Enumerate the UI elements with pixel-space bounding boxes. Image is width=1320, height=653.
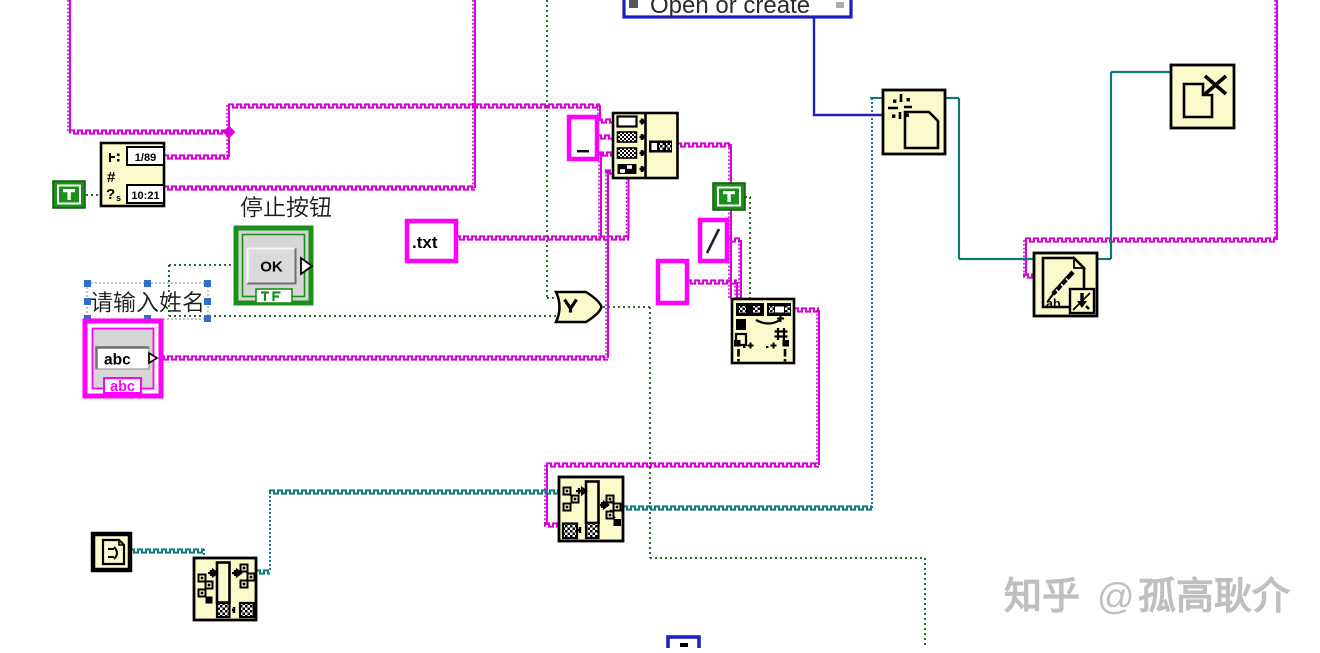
wire: string vertical riser at junction x=229 <box>228 105 230 157</box>
wire: enum value from Open or create constant <box>814 17 883 115</box>
node: Get Date/Time String <box>101 143 164 206</box>
constant: Current VI Path <box>93 534 130 570</box>
node: Strip Path <box>194 558 256 620</box>
wire: refnum Open/Create to Write to Text File <box>945 97 959 99</box>
wire: text wire from right edge down into Write to Text File <box>1276 0 1278 240</box>
wire: Search and Replace output <box>794 308 819 311</box>
wire: OR gate output <box>598 306 650 308</box>
control: string abc (请输入姓名 terminal) <box>85 321 161 396</box>
svg-text:.txt: .txt <box>412 233 438 252</box>
wire: boolean vertical from off-screen top into OR gate upper input <box>546 0 548 298</box>
wire: space constant to concatenate input 2 <box>597 135 613 138</box>
watermark: 知乎 @孤高耿介 <box>1005 576 1289 617</box>
wire: Build Path output up to Open/Create/Replace File <box>623 506 872 509</box>
wire: long string horizontal y=104 to concatenate input 1 <box>229 104 600 107</box>
wire: name string from abc control <box>160 356 608 359</box>
wire: concatenate output <box>677 143 731 146</box>
wire: string vertical drop into concatenate input 1 <box>599 105 601 121</box>
wire: date-string output of Get Date/Time String <box>164 155 229 158</box>
wire: empty string constant into Search and Replace <box>687 280 737 283</box>
constant: .txt string <box>407 221 456 261</box>
node: Write to Text File <box>1034 253 1097 316</box>
svg-text:Open or create: Open or create <box>650 0 810 19</box>
wire: boolean from stop button to OR gate <box>169 264 236 266</box>
constant: boolean True (left) <box>53 181 85 208</box>
wire: string horizontal into junction <box>70 130 229 133</box>
wire: boolean from T constant to Search and Replace <box>745 196 751 198</box>
wire: slash constant into Search and Replace <box>727 238 741 241</box>
node: OR gate <box>556 292 602 322</box>
svg-text:#: # <box>107 169 116 186</box>
wire: riser from .txt wire to concatenate input 3 <box>600 153 602 238</box>
wire: string vertical from top-left off-screen <box>69 0 71 132</box>
constant: numeric (clipped at bottom edge) <box>668 637 699 651</box>
node: Close File <box>1171 65 1234 128</box>
wire: junction dot <box>223 126 236 139</box>
svg-text:abc: abc <box>110 379 135 395</box>
node: Concatenate Strings <box>613 113 678 178</box>
node: Search and Replace String <box>732 299 794 363</box>
wire: short riser from concatenate bottom edge <box>628 178 630 238</box>
wire: Strip Path output up to Build Path <box>256 570 270 573</box>
svg-text:s: s <box>116 193 121 203</box>
constant: space string <box>569 117 597 159</box>
wire: riser from name-string wire to concatenate input 4 <box>607 171 609 358</box>
control: stop button (OK) <box>236 228 312 303</box>
wire: boolean from T constant to Get Date/Time String <box>86 194 101 196</box>
svg-text:ab: ab <box>1046 297 1061 311</box>
node: Build Path <box>559 477 623 541</box>
svg-text:abc: abc <box>104 352 131 369</box>
wire: string vertical down to Search and Replace input (passes behind constants) <box>730 144 732 299</box>
constant: boolean True (right) <box>713 183 745 210</box>
node: Open/Create/Replace File <box>883 90 945 154</box>
svg-text:1/89: 1/89 <box>135 152 156 164</box>
wire: stub into concatenate input 1 <box>598 119 613 122</box>
label: 请输入姓名 with selection marquee <box>84 280 211 322</box>
constant: slash string "/" <box>700 220 727 261</box>
wire: .txt constant horizontal <box>456 236 629 239</box>
wire: string horizontal y=465 to Build Path <box>547 463 819 466</box>
constant: empty string <box>658 261 687 303</box>
constant: Open or create enum (clipped at top) <box>624 0 851 19</box>
svg-text:10:21: 10:21 <box>131 190 159 202</box>
label: 停止按钮 <box>241 196 331 217</box>
wire: path from Current VI Path to Strip Path <box>130 549 204 552</box>
svg-text:?: ? <box>106 186 115 203</box>
wire: time-string output of Get Date/Time String going off-screen top <box>164 186 475 189</box>
wire: refnum Write to Text File to Close File <box>1097 258 1111 260</box>
svg-text:OK: OK <box>260 259 283 276</box>
svg-text:@: @ <box>1097 576 1135 617</box>
